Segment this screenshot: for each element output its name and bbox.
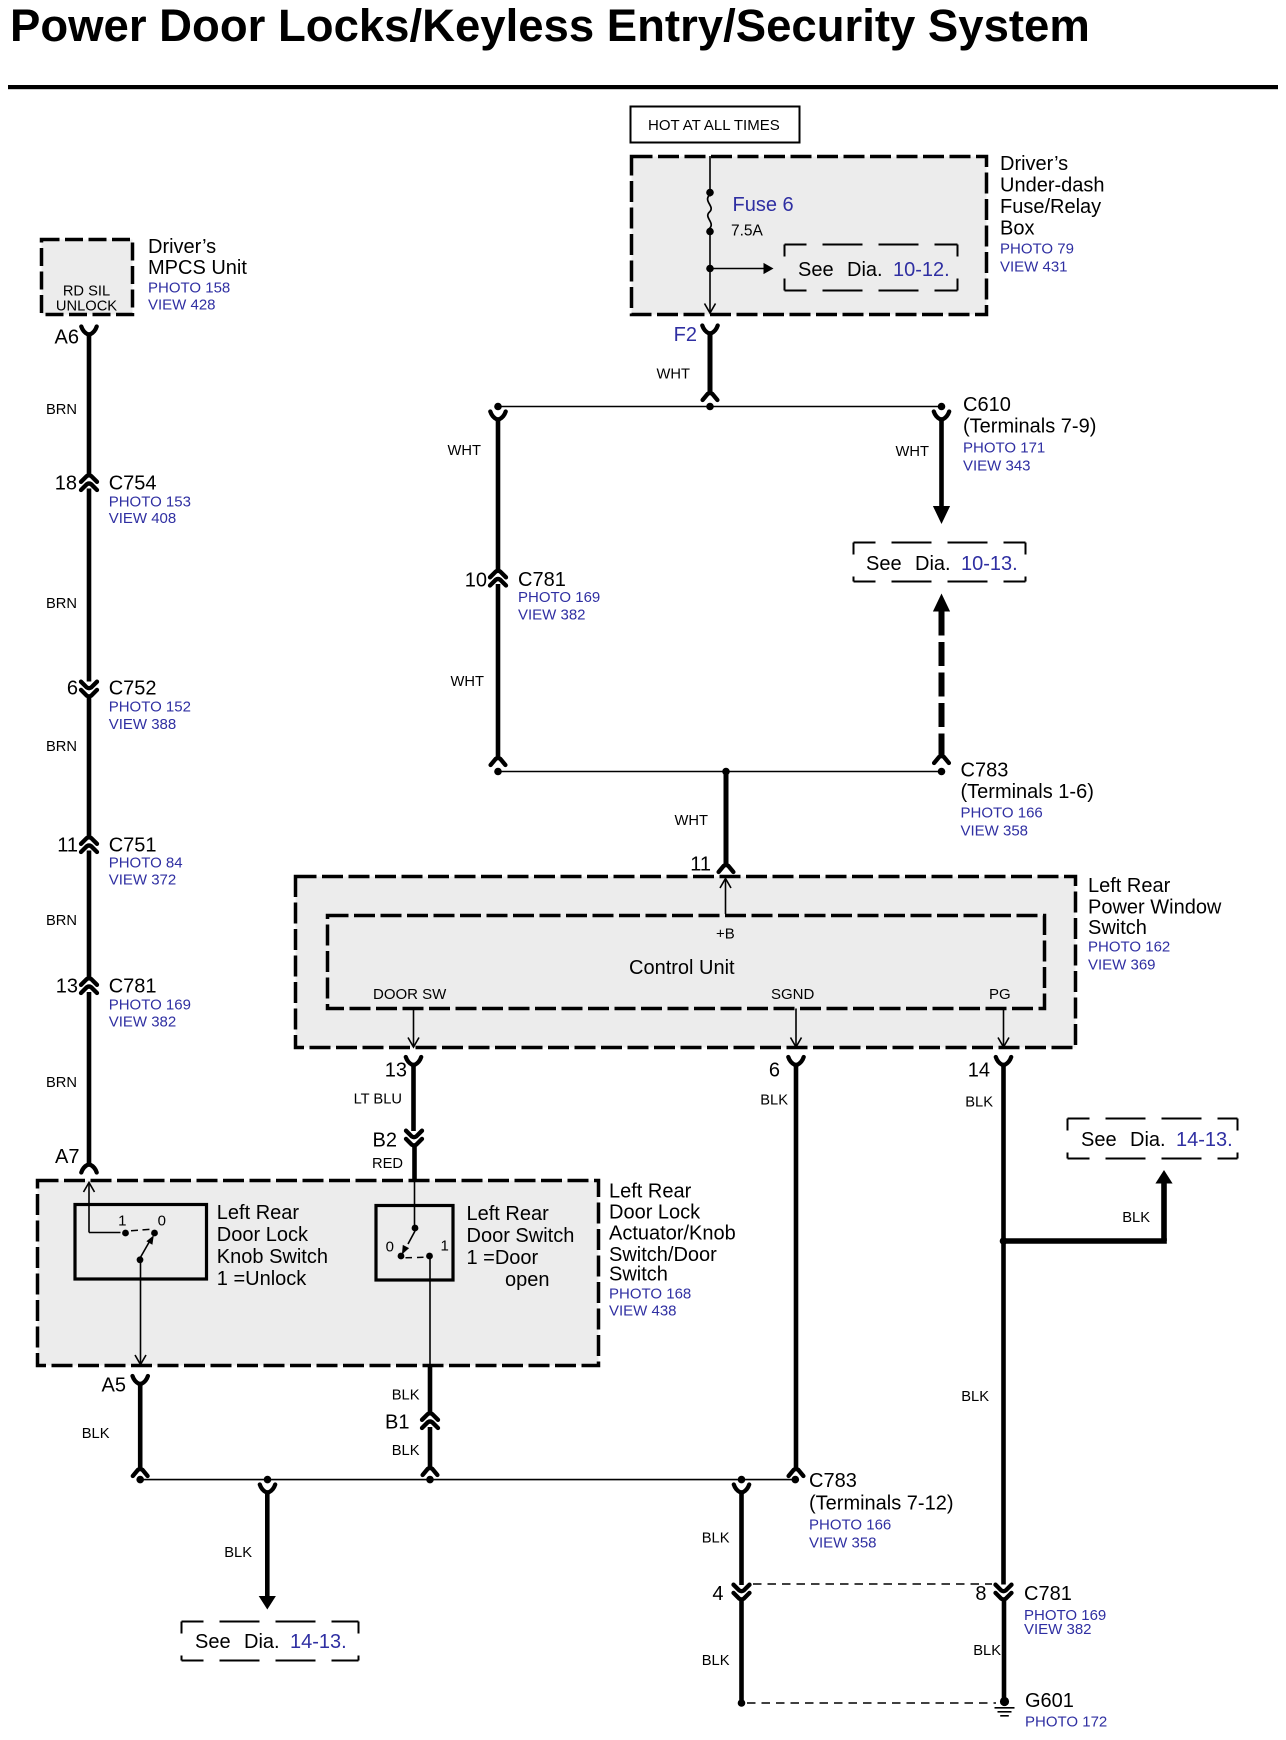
svg-text:PHOTO 153: PHOTO 153	[109, 494, 191, 511]
svg-text:C781: C781	[518, 569, 566, 591]
svg-text:1 =Door: 1 =Door	[467, 1247, 539, 1269]
svg-text:1: 1	[441, 1238, 449, 1255]
svg-text:B2: B2	[373, 1130, 397, 1152]
svg-text:6: 6	[769, 1060, 780, 1082]
wire: door switch terminal 1 down to B1	[429, 1259, 431, 1366]
svg-text:open: open	[505, 1269, 550, 1291]
svg-text:VIEW 431: VIEW 431	[1000, 259, 1068, 276]
svg-text:BRN: BRN	[46, 1075, 77, 1091]
svg-text:C781: C781	[1024, 1583, 1072, 1605]
svg-text:1 =Unlock: 1 =Unlock	[217, 1268, 307, 1290]
svg-text:C752: C752	[109, 678, 157, 700]
svg-text:Switch: Switch	[1088, 917, 1147, 939]
wire WHT: right branch to C610 terminals 7-9	[934, 412, 949, 420]
wire: lower ground rail	[140, 1479, 795, 1481]
pin 11 entry arrow to +B	[720, 879, 731, 889]
svg-text:LT BLU: LT BLU	[354, 1092, 402, 1108]
svg-text:Door Lock: Door Lock	[609, 1202, 701, 1224]
left rear door lock actuator/knob switch/door switch box (dashed)	[38, 1181, 599, 1366]
svg-text:VIEW 388: VIEW 388	[109, 716, 177, 733]
svg-text:VIEW 382: VIEW 382	[109, 1014, 177, 1031]
See Dia. 14-13 reference box (bottom left)	[182, 1621, 359, 1623]
svg-text:BRN: BRN	[46, 739, 77, 755]
dashed ground link to G601	[747, 1702, 996, 1704]
left rear power window switch box (dashed)	[296, 877, 1076, 1048]
wire BLK: C781 pin 8 down to G601	[1002, 1598, 1007, 1699]
dashed link between pins 4 and 8 of C781	[753, 1583, 992, 1585]
svg-text:14: 14	[968, 1060, 990, 1082]
svg-text:BLK: BLK	[702, 1531, 730, 1547]
svg-text:BRN: BRN	[46, 402, 77, 418]
svg-text:Control Unit: Control Unit	[629, 957, 735, 979]
svg-text:See: See	[195, 1631, 231, 1653]
label HOT AT ALL TIMES box	[631, 107, 800, 143]
knob switch contact dash	[131, 1229, 152, 1231]
node: bottom rail right end (C783 terminals 1-6)	[938, 768, 946, 776]
door switch box	[376, 1206, 453, 1281]
svg-text:PHOTO 166: PHOTO 166	[809, 1517, 891, 1534]
wire BRN: C752 to C751	[87, 695, 92, 839]
node: ground rail at A5	[136, 1476, 144, 1484]
svg-text:A6: A6	[55, 327, 79, 349]
svg-text:PHOTO 169: PHOTO 169	[518, 589, 600, 606]
svg-text:Dia.: Dia.	[244, 1631, 280, 1653]
svg-text:MPCS Unit: MPCS Unit	[148, 257, 247, 279]
door switch contact dash	[406, 1256, 426, 1259]
svg-text:Fuse/Relay: Fuse/Relay	[1000, 196, 1101, 218]
svg-text:BLK: BLK	[702, 1653, 730, 1669]
svg-text:PHOTO 162: PHOTO 162	[1088, 939, 1170, 956]
node: branch to C781 pin 4	[738, 1476, 746, 1484]
svg-text:RD SIL: RD SIL	[63, 284, 110, 300]
node: branch to See Dia 14-13 (left)	[264, 1476, 272, 1484]
wire BLK: branch up to See Dia 14-13	[1155, 1170, 1172, 1184]
svg-text:PG: PG	[989, 986, 1011, 1003]
svg-text:B1: B1	[385, 1412, 409, 1434]
svg-text:10-13.: 10-13.	[961, 553, 1018, 575]
svg-text:BRN: BRN	[46, 913, 77, 929]
svg-text:C610: C610	[963, 394, 1011, 416]
svg-text:PHOTO 171: PHOTO 171	[963, 440, 1045, 457]
svg-text:Driver’s: Driver’s	[1000, 153, 1068, 175]
See Dia. 10-12 reference box	[785, 244, 958, 246]
svg-text:DOOR SW: DOOR SW	[373, 986, 447, 1003]
door switch lever to 0 (door open)	[408, 1231, 415, 1244]
node: fuse 6 top terminal	[706, 189, 714, 197]
node: top rail left end	[494, 403, 502, 411]
knob switch lever (1 = unlock)	[140, 1242, 150, 1260]
wire WHT: left branch lower half	[496, 584, 501, 759]
svg-text:PHOTO 84: PHOTO 84	[109, 855, 183, 872]
svg-text:WHT: WHT	[657, 367, 690, 383]
wire BLK: pin 4 down to ground link	[739, 1598, 744, 1701]
svg-text:Power Door Locks/Keyless Entry: Power Door Locks/Keyless Entry/Security …	[10, 0, 1090, 51]
svg-text:A5: A5	[102, 1375, 126, 1397]
svg-text:PHOTO 169: PHOTO 169	[109, 997, 191, 1014]
svg-text:Actuator/Knob: Actuator/Knob	[609, 1223, 736, 1245]
wire BLK: down to See Dia 14-13 (left)	[260, 1485, 275, 1493]
fuse F6 element (squiggle)	[708, 195, 712, 231]
svg-text:Fuse 6: Fuse 6	[733, 194, 794, 216]
svg-text:Dia.: Dia.	[915, 553, 951, 575]
svg-text:Dia.: Dia.	[847, 259, 883, 281]
knob switch common terminal	[137, 1256, 144, 1263]
svg-text:PHOTO 168: PHOTO 168	[609, 1286, 691, 1303]
svg-text:7.5A: 7.5A	[731, 223, 764, 240]
svg-text:Power Window: Power Window	[1088, 896, 1222, 918]
node: bottom rail left end	[494, 768, 502, 776]
svg-text:A7: A7	[55, 1146, 79, 1168]
svg-text:0: 0	[158, 1213, 166, 1230]
See Dia. 14-13 reference box (right)	[1068, 1118, 1238, 1120]
svg-text:14-13.: 14-13.	[290, 1631, 347, 1653]
svg-text:10: 10	[465, 570, 487, 592]
svg-text:Driver’s: Driver’s	[148, 236, 216, 258]
svg-text:1: 1	[118, 1213, 126, 1230]
driver's under-dash fuse/relay box (dashed)	[632, 157, 987, 315]
svg-text:BRN: BRN	[46, 596, 77, 612]
svg-text:BLK: BLK	[392, 1443, 420, 1459]
svg-text:BLK: BLK	[1122, 1210, 1150, 1226]
svg-text:WHT: WHT	[896, 444, 929, 460]
wire BLK: down to C781 pin 4	[734, 1485, 749, 1493]
svg-text:+B: +B	[716, 926, 735, 943]
svg-text:RED: RED	[372, 1156, 403, 1172]
svg-text:C751: C751	[109, 835, 157, 857]
door lock knob switch box	[75, 1205, 207, 1280]
svg-text:14-13.: 14-13.	[1176, 1129, 1233, 1151]
svg-text:VIEW 358: VIEW 358	[961, 823, 1029, 840]
DOOR SW output arrow	[413, 1009, 415, 1046]
wire BRN: A6 down to C754	[87, 333, 92, 477]
svg-text:Left Rear: Left Rear	[1088, 875, 1171, 897]
svg-text:0: 0	[386, 1239, 394, 1256]
svg-text:F2: F2	[674, 324, 697, 346]
svg-text:Door Switch: Door Switch	[467, 1225, 575, 1247]
svg-text:(Terminals 1-6): (Terminals 1-6)	[961, 781, 1094, 803]
control unit box (dashed)	[328, 916, 1045, 1009]
SGND output arrow	[795, 1009, 797, 1046]
svg-text:BLK: BLK	[82, 1426, 110, 1442]
svg-text:C783: C783	[809, 1470, 857, 1492]
svg-text:PHOTO 152: PHOTO 152	[109, 699, 191, 716]
door switch top terminal	[412, 1225, 419, 1232]
node: F2 feed junction on top rail	[706, 403, 714, 411]
svg-text:PHOTO 158: PHOTO 158	[148, 280, 230, 297]
svg-text:G601: G601	[1025, 1690, 1074, 1712]
wire WHT: F2 down to junction	[708, 332, 713, 394]
wire LT BLU: pin 13 down to B2	[411, 1063, 416, 1131]
svg-text:Switch: Switch	[609, 1264, 668, 1286]
svg-text:Left Rear: Left Rear	[609, 1181, 692, 1203]
svg-text:VIEW 372: VIEW 372	[109, 872, 177, 889]
svg-text:HOT AT ALL TIMES: HOT AT ALL TIMES	[648, 117, 780, 134]
wire BLK: pin 14 down to C781 pin 8	[1001, 1063, 1006, 1585]
svg-text:Box: Box	[1000, 218, 1034, 240]
svg-text:VIEW 438: VIEW 438	[609, 1303, 677, 1320]
wire BLK: B1 down to ground rail	[428, 1427, 433, 1469]
wire BRN: C781 pin 13 to A7	[87, 992, 92, 1166]
svg-text:18: 18	[55, 473, 77, 495]
svg-text:See: See	[1081, 1129, 1117, 1151]
wire RED: B2 to door lock actuator	[412, 1144, 417, 1182]
wire: knob switch common down to A5	[140, 1262, 142, 1364]
svg-text:11: 11	[57, 835, 78, 857]
svg-text:VIEW 358: VIEW 358	[809, 1535, 877, 1552]
svg-text:VIEW 369: VIEW 369	[1088, 957, 1156, 974]
wire BLK: A5 down to ground rail	[138, 1382, 143, 1470]
svg-text:BLK: BLK	[760, 1093, 788, 1109]
svg-text:Left Rear: Left Rear	[467, 1203, 550, 1225]
node: feed to power window switch	[722, 768, 730, 776]
svg-text:See: See	[866, 553, 902, 575]
node: branch junction on PG wire	[1000, 1237, 1008, 1245]
svg-text:BLK: BLK	[392, 1388, 420, 1404]
svg-text:(Terminals 7-9): (Terminals 7-9)	[963, 416, 1096, 438]
svg-text:WHT: WHT	[448, 443, 481, 459]
wire BLK: pin 6 down to C783 terminals 7-12	[794, 1063, 799, 1470]
svg-text:VIEW 428: VIEW 428	[148, 297, 216, 314]
wire: B2/RED entry into door switch	[414, 1181, 416, 1226]
svg-text:Knob Switch: Knob Switch	[217, 1246, 328, 1268]
svg-text:C781: C781	[109, 976, 157, 998]
svg-text:13: 13	[56, 976, 78, 998]
node: ground rail at B1	[426, 1476, 434, 1484]
arrow out of fuse box at F2	[705, 304, 716, 314]
svg-text:See: See	[798, 259, 834, 281]
node: top rail right end (C610)	[938, 403, 946, 411]
svg-text:(Terminals 7-12): (Terminals 7-12)	[809, 1493, 953, 1515]
svg-text:Dia.: Dia.	[1130, 1129, 1166, 1151]
driver's MPCS unit box (dashed)	[42, 240, 133, 315]
svg-text:VIEW 408: VIEW 408	[109, 510, 177, 527]
svg-text:VIEW 382: VIEW 382	[1024, 1621, 1092, 1638]
svg-text:Left Rear: Left Rear	[217, 1202, 300, 1224]
svg-text:UNLOCK: UNLOCK	[56, 299, 117, 315]
svg-text:VIEW 382: VIEW 382	[518, 607, 586, 624]
svg-text:11: 11	[690, 854, 711, 876]
svg-text:10-12.: 10-12.	[893, 259, 950, 281]
wire: dashed link from C783 up to See Dia 10-13	[933, 594, 950, 612]
wire: battery feed into fuse 6	[709, 156, 711, 197]
wire: top distribution rail	[498, 406, 942, 408]
svg-text:6: 6	[67, 678, 78, 700]
svg-text:C783: C783	[961, 760, 1009, 782]
svg-text:8: 8	[975, 1583, 986, 1605]
svg-text:WHT: WHT	[451, 674, 484, 690]
svg-text:VIEW 343: VIEW 343	[963, 458, 1031, 475]
svg-text:4: 4	[712, 1583, 723, 1605]
svg-text:BLK: BLK	[973, 1643, 1001, 1659]
svg-text:C754: C754	[109, 473, 157, 495]
svg-text:PHOTO 166: PHOTO 166	[961, 805, 1043, 822]
wire BRN: C751 to C781	[87, 851, 92, 980]
svg-text:PHOTO 172: PHOTO 172	[1025, 1714, 1107, 1731]
svg-text:PHOTO 79: PHOTO 79	[1000, 241, 1074, 258]
node: fuse 6 bottom terminal	[706, 228, 714, 236]
svg-text:WHT: WHT	[675, 813, 708, 829]
svg-text:Door Lock: Door Lock	[217, 1224, 309, 1246]
svg-text:Under-dash: Under-dash	[1000, 175, 1105, 197]
svg-text:SGND: SGND	[771, 986, 815, 1003]
See Dia. 10-13 reference box	[854, 542, 1026, 544]
svg-text:13: 13	[385, 1060, 407, 1082]
node: bottom ground link left end	[738, 1699, 746, 1707]
wire WHT: left branch down from top rail	[490, 412, 505, 420]
PG output arrow	[1003, 1009, 1005, 1046]
ground G601	[1000, 1697, 1009, 1706]
node: C783 terminals 7-12 junction	[792, 1476, 800, 1484]
svg-text:BLK: BLK	[965, 1095, 993, 1111]
wire: branch arrow to See Dia 10-12	[710, 268, 764, 270]
wire BRN: C754 to C752	[87, 489, 92, 682]
wire WHT: down to left rear power window switch pin 11	[724, 774, 729, 866]
wire: bottom distribution rail	[498, 771, 942, 773]
node: branch to See Dia 10-12	[706, 265, 714, 273]
wire: fuse 6 output down to F2	[709, 232, 711, 313]
wire: A7 entry into knob switch terminal 1	[84, 1183, 95, 1193]
svg-text:BLK: BLK	[961, 1389, 989, 1405]
title underline rule	[8, 85, 1278, 89]
svg-text:BLK: BLK	[224, 1545, 252, 1561]
